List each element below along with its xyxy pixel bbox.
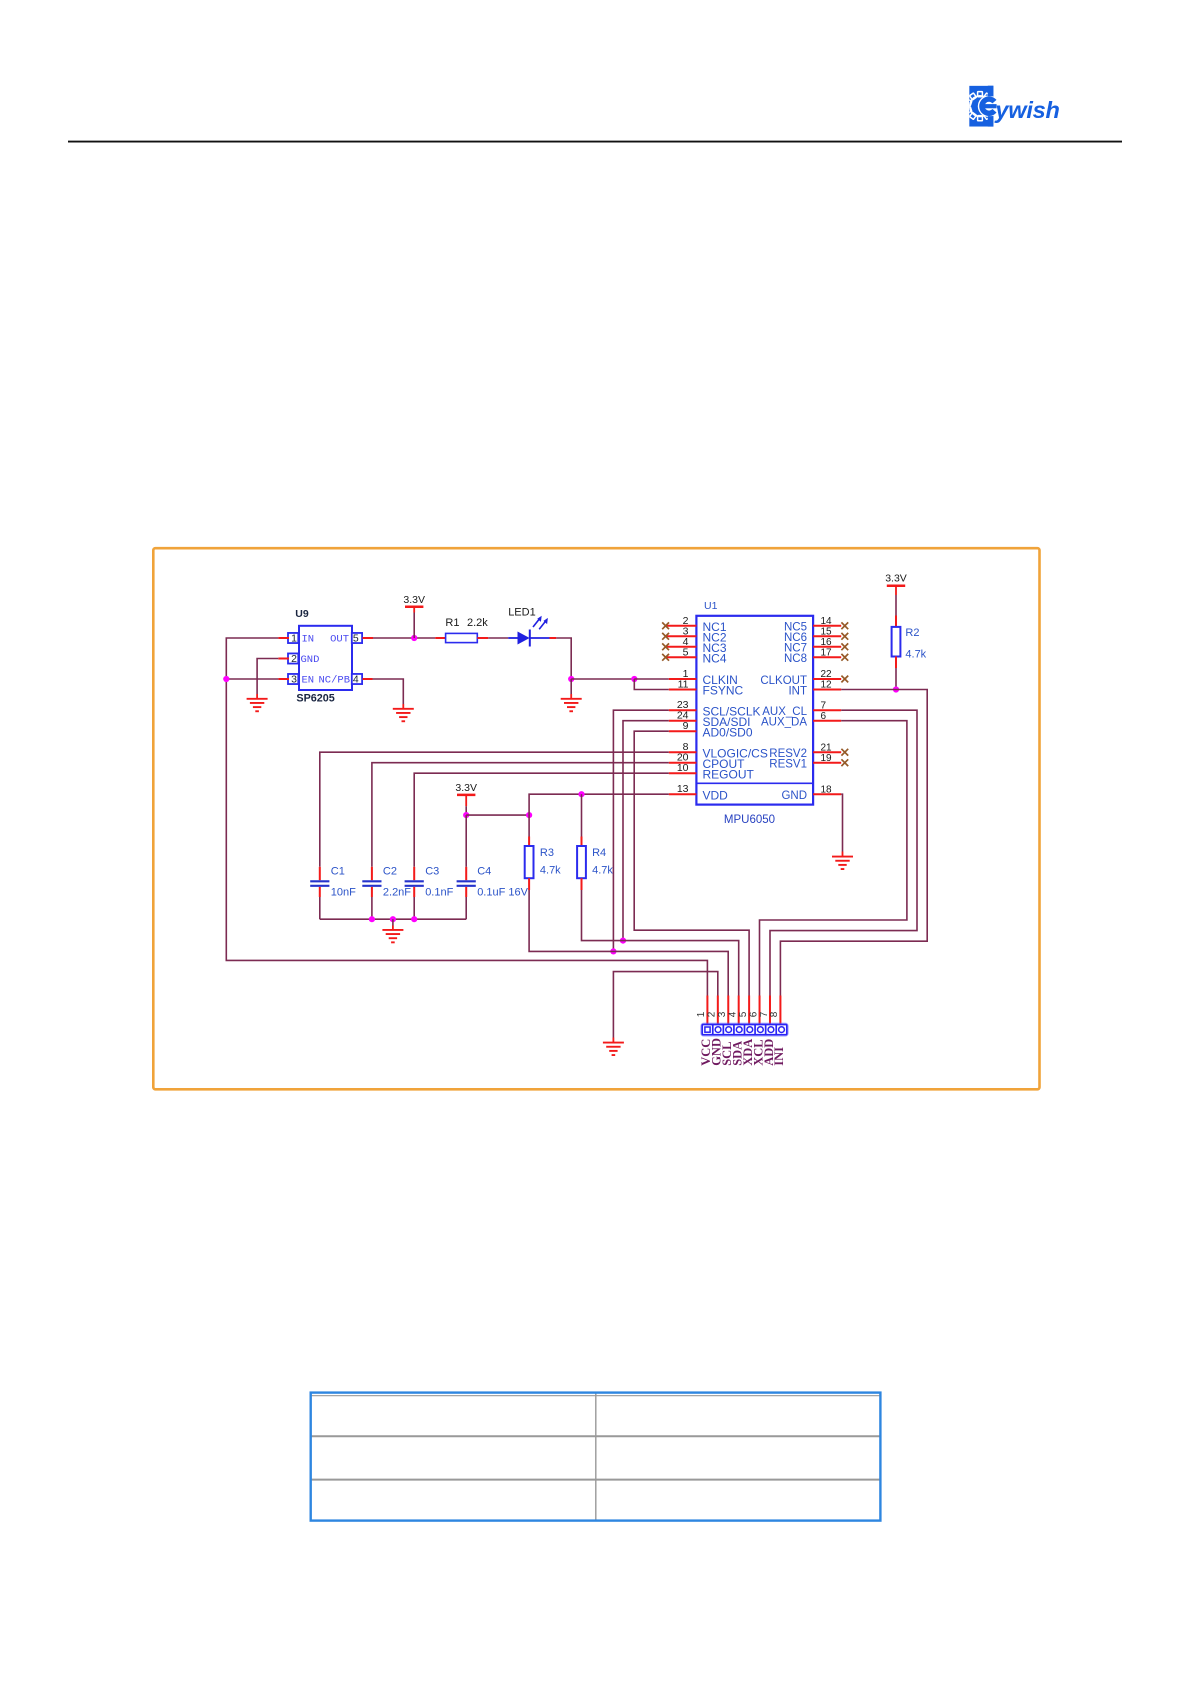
- svg-text:C2: C2: [383, 865, 397, 877]
- svg-text:NC4: NC4: [703, 652, 727, 666]
- svg-text:6: 6: [748, 1011, 759, 1017]
- svg-text:4.7k: 4.7k: [905, 649, 926, 661]
- svg-text:1: 1: [291, 633, 297, 645]
- svg-text:5: 5: [738, 1011, 749, 1017]
- svg-text:RESV1: RESV1: [769, 759, 807, 771]
- svg-text:VDD: VDD: [703, 788, 729, 802]
- svg-text:2.2nF: 2.2nF: [383, 886, 411, 898]
- svg-text:EN: EN: [302, 675, 315, 687]
- svg-text:NC/PB: NC/PB: [318, 675, 350, 687]
- svg-text:IN: IN: [302, 634, 315, 646]
- svg-text:R1: R1: [445, 617, 459, 629]
- svg-text:GND: GND: [301, 654, 320, 666]
- svg-text:4.7k: 4.7k: [592, 864, 613, 876]
- svg-text:GND: GND: [781, 790, 807, 802]
- svg-text:1: 1: [696, 1011, 707, 1017]
- svg-text:9: 9: [683, 720, 689, 732]
- svg-text:C4: C4: [477, 865, 491, 877]
- svg-text:6: 6: [821, 711, 827, 722]
- svg-text:11: 11: [678, 679, 689, 691]
- svg-text:4: 4: [353, 674, 359, 686]
- svg-text:4.7k: 4.7k: [540, 864, 561, 876]
- svg-text:22: 22: [821, 669, 833, 680]
- svg-text:INI: INI: [772, 1047, 786, 1066]
- svg-text:15: 15: [821, 627, 833, 638]
- svg-text:2: 2: [707, 1011, 718, 1017]
- svg-text:5: 5: [353, 633, 359, 645]
- svg-text:19: 19: [821, 753, 833, 764]
- svg-text:10: 10: [677, 762, 689, 774]
- svg-text:U1: U1: [704, 600, 718, 612]
- svg-text:7: 7: [759, 1011, 770, 1017]
- svg-text:3.3V: 3.3V: [455, 782, 477, 794]
- svg-text:10nF: 10nF: [331, 886, 356, 898]
- svg-text:3: 3: [291, 674, 297, 686]
- svg-text:AD0/SD0: AD0/SD0: [703, 725, 753, 739]
- svg-text:3: 3: [717, 1011, 728, 1017]
- svg-text:C3: C3: [425, 865, 439, 877]
- svg-text:OUT: OUT: [330, 634, 349, 646]
- svg-text:12: 12: [821, 680, 833, 691]
- svg-text:R3: R3: [540, 847, 554, 859]
- svg-text:16: 16: [821, 637, 833, 648]
- svg-text:3.3V: 3.3V: [885, 573, 907, 585]
- svg-text:14: 14: [821, 616, 833, 627]
- svg-text:R4: R4: [592, 847, 606, 859]
- svg-text:R2: R2: [905, 627, 919, 639]
- svg-text:18: 18: [821, 784, 833, 795]
- svg-text:13: 13: [677, 783, 689, 795]
- svg-text:0.1nF: 0.1nF: [425, 886, 453, 898]
- svg-text:U9: U9: [295, 608, 309, 620]
- svg-text:LED1: LED1: [508, 606, 536, 618]
- svg-text:0.1uF 16V: 0.1uF 16V: [477, 886, 528, 898]
- svg-text:21: 21: [821, 742, 833, 753]
- svg-text:MPU6050: MPU6050: [724, 814, 775, 826]
- svg-text:3.3V: 3.3V: [403, 594, 425, 606]
- svg-text:FSYNC: FSYNC: [703, 684, 744, 698]
- svg-text:AUX_DA: AUX_DA: [761, 717, 807, 729]
- svg-text:NC8: NC8: [784, 653, 807, 665]
- svg-text:8: 8: [769, 1011, 780, 1017]
- svg-text:SP6205: SP6205: [296, 693, 334, 705]
- svg-text:5: 5: [683, 646, 689, 658]
- svg-text:2: 2: [291, 653, 297, 665]
- svg-text:4: 4: [727, 1011, 738, 1017]
- svg-text:7: 7: [821, 700, 827, 711]
- svg-text:ywish: ywish: [994, 97, 1059, 123]
- svg-text:17: 17: [821, 648, 833, 659]
- svg-text:REGOUT: REGOUT: [703, 767, 755, 781]
- svg-text:C1: C1: [331, 865, 345, 877]
- svg-text:INT: INT: [788, 685, 807, 697]
- svg-text:2.2k: 2.2k: [467, 617, 488, 629]
